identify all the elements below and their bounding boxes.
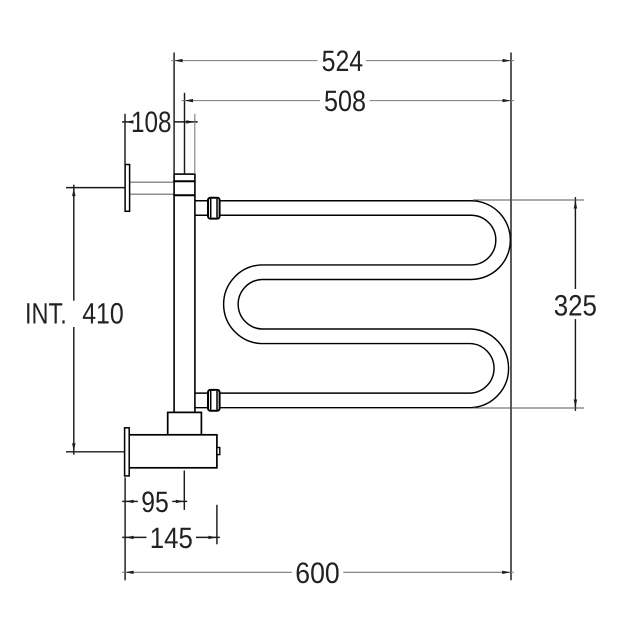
extension line right shared <box>510 53 512 581</box>
svg-text:600: 600 <box>295 557 339 590</box>
svg-text:508: 508 <box>324 85 366 118</box>
arrow 524 left <box>174 59 183 62</box>
arrow 145 left <box>125 536 134 539</box>
svg-text:410: 410 <box>82 297 124 330</box>
motor collar <box>168 412 202 434</box>
arrow 600 left <box>125 571 134 574</box>
arrow 325 top <box>574 200 577 209</box>
extension line 508 left <box>184 93 186 174</box>
serpentine towel tube bore <box>193 208 503 400</box>
svg-text:145: 145 <box>150 522 193 555</box>
dimension graphics (medium lines) <box>473 200 584 408</box>
serpentine towel tube outer <box>194 208 503 400</box>
dim line INT 410 <box>73 185 75 301</box>
dimension graphics (dark lines) <box>66 53 575 581</box>
dim line 600 <box>122 571 292 573</box>
column joint line upper <box>173 180 195 182</box>
arrow 95 left <box>125 500 134 503</box>
svg-text:108: 108 <box>131 106 172 139</box>
extension line 145 right <box>216 505 218 545</box>
arrow INT bottom <box>72 443 75 452</box>
arrow INT top <box>72 188 75 197</box>
dim line 145 <box>122 536 146 538</box>
extension line bottom left shared <box>124 477 126 580</box>
switch nub <box>217 448 220 455</box>
arrow 508 left <box>185 99 194 102</box>
swivel column <box>174 174 195 412</box>
motor body <box>128 435 217 468</box>
svg-text:325: 325 <box>554 289 597 322</box>
svg-text:524: 524 <box>322 45 364 78</box>
arrow 145 right <box>208 536 217 539</box>
column joint line lower <box>173 194 195 196</box>
extension line 108 right <box>194 114 196 174</box>
dim line 108 <box>122 121 130 123</box>
wall pipe to top flange <box>129 182 176 194</box>
arrow 524 right <box>503 59 512 62</box>
arrow 325 bottom <box>574 400 577 409</box>
arrow 600 right <box>502 571 511 574</box>
extension line 108 left <box>124 114 126 164</box>
extension line INT top <box>66 187 125 189</box>
bottom wall flange <box>125 428 130 476</box>
dim line 95 <box>122 500 138 502</box>
arrow 508 right <box>503 99 512 102</box>
svg-text:INT.: INT. <box>25 297 67 330</box>
extension line 95 right <box>183 471 185 510</box>
arrow 108 right <box>186 120 195 123</box>
svg-text:95: 95 <box>141 486 169 519</box>
dimension graphics (light lines) <box>122 61 514 573</box>
extension line col left up <box>173 53 175 175</box>
dim line 325 <box>574 197 576 289</box>
dimension texts <box>25 45 597 590</box>
extension line 325 bottom <box>473 407 584 409</box>
dim line 524 <box>171 60 317 62</box>
arrow 95 right <box>176 500 185 503</box>
extension line 325 top <box>473 199 584 201</box>
top union fitting <box>208 198 220 219</box>
dimension arrowheads <box>72 59 577 574</box>
dim line 508 <box>182 100 320 102</box>
top wall flange <box>125 165 130 212</box>
bottom union fitting <box>208 390 220 411</box>
extension line INT bottom <box>66 451 124 453</box>
arrow 108 left <box>125 120 134 123</box>
